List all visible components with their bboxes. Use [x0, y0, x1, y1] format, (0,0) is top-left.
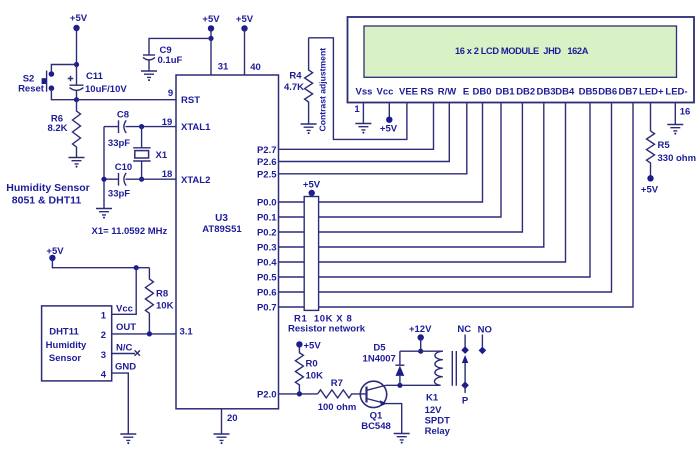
- node reset top junction: [74, 62, 79, 67]
- svg-text:C8: C8: [117, 110, 129, 121]
- wire U3 pin 20 to ground: [221, 409, 223, 434]
- node R0 bottom junction: [297, 391, 302, 396]
- svg-text:DB2: DB2: [516, 87, 535, 98]
- wire pole stub P: [464, 385, 466, 393]
- wire DB6 to P0.6: [279, 103, 612, 292]
- svg-text:16 x 2 LCD MODULE JHD 162A: 16 x 2 LCD MODULE JHD 162A: [455, 46, 589, 56]
- svg-text:N/C: N/C: [116, 343, 133, 354]
- wire DB3 to P0.3: [279, 103, 544, 247]
- svg-text:K1: K1: [426, 393, 439, 404]
- wire Vss pin to ground: [362, 103, 364, 123]
- capacitor C11 10uF/10V: [68, 65, 128, 100]
- svg-text:+5V: +5V: [380, 124, 398, 135]
- svg-text:NO: NO: [478, 325, 492, 336]
- transistor Q1 BC548: [360, 381, 390, 432]
- switch S2 (Reset pushbutton): [18, 71, 54, 95]
- svg-text:9: 9: [168, 88, 173, 99]
- +5V terminal above R1 network: [303, 180, 321, 197]
- wire node to switch S2 top: [51, 65, 76, 75]
- wire VEE pin to contrast pot: [309, 38, 407, 140]
- svg-text:P2.0: P2.0: [257, 389, 277, 400]
- node C9 junction: [208, 36, 213, 41]
- svg-text:31: 31: [218, 62, 229, 73]
- svg-text:RST: RST: [181, 95, 200, 106]
- svg-text:Vss: Vss: [356, 87, 373, 98]
- +5V terminal at LCD Vcc: [380, 117, 398, 135]
- svg-text:33pF: 33pF: [108, 189, 130, 200]
- relay pole arm with arrow: [462, 355, 468, 385]
- svg-text:1: 1: [354, 104, 360, 115]
- ground at LED-: [667, 125, 683, 135]
- +5V terminal below R5: [641, 175, 659, 195]
- wire RS to P2.7: [279, 103, 434, 149]
- svg-text:Reset: Reset: [18, 84, 45, 95]
- svg-text:DB6: DB6: [598, 87, 617, 98]
- svg-text:10K: 10K: [156, 301, 174, 312]
- resistor network R1 10K x 8: [288, 197, 366, 335]
- microcontroller U3 AT89S51 box: [176, 75, 279, 409]
- node +12V relay junction: [418, 349, 423, 354]
- svg-text:3: 3: [101, 350, 106, 361]
- svg-text:R4: R4: [289, 71, 302, 82]
- capacitor C8 33pF: [108, 110, 130, 150]
- N/C no-connect cross: [135, 350, 140, 355]
- wire +5V to Vcc and R8: [52, 258, 149, 268]
- wire DB5 to P0.5: [279, 103, 591, 277]
- wire XTAL1 row: [104, 126, 176, 128]
- ground below DHT11: [120, 434, 136, 444]
- caption Humidity Sensor 8051 & DHT11: [6, 182, 89, 207]
- svg-text:Contrast adjustment: Contrast adjustment: [318, 48, 328, 132]
- svg-text:12V: 12V: [425, 405, 443, 416]
- svg-text:DB1: DB1: [495, 87, 515, 98]
- svg-text:Humidity: Humidity: [46, 340, 87, 351]
- ground below Q1 emitter: [394, 434, 410, 444]
- resistor R5 330 ohm: [647, 131, 697, 178]
- svg-text:BC548: BC548: [361, 421, 391, 432]
- svg-text:40: 40: [250, 62, 261, 73]
- wire DB1 to P0.1: [279, 103, 502, 217]
- ground below C9: [141, 71, 157, 81]
- wire D5 cathode to relay coil top: [400, 350, 443, 352]
- wire Q1 collector to relay coil bottom: [386, 384, 441, 386]
- svg-text:DB0: DB0: [472, 87, 491, 98]
- svg-text:XTAL2: XTAL2: [181, 175, 210, 186]
- svg-text:DB4: DB4: [555, 87, 575, 98]
- wire Vcc pin to +5V: [388, 103, 390, 120]
- wire LED+ pin to R5: [650, 103, 652, 131]
- svg-text:E: E: [463, 87, 469, 98]
- node NC contact: [461, 346, 469, 354]
- resistor R6 8.2K: [47, 100, 80, 157]
- wire XTAL2 row: [104, 178, 176, 180]
- resistor R0 10K: [295, 344, 323, 394]
- node D5 anode junction: [397, 383, 402, 388]
- svg-text:8051 & DHT11: 8051 & DHT11: [12, 195, 82, 207]
- svg-text:+5V: +5V: [46, 246, 64, 257]
- svg-text:+5V: +5V: [70, 13, 88, 24]
- wire DHT11 N/C stub: [112, 353, 135, 355]
- +5V terminal above pin 31: [202, 14, 220, 32]
- svg-text:SPDT: SPDT: [425, 416, 451, 427]
- svg-text:LED-: LED-: [665, 87, 687, 98]
- wire DB2 to P0.2: [279, 103, 523, 232]
- ground below R4: [301, 124, 317, 134]
- +5V terminal above pin 40: [236, 14, 254, 32]
- svg-text:R0: R0: [306, 359, 318, 370]
- DHT11 humidity sensor box: [42, 306, 112, 381]
- +5V terminal above DHT11: [46, 246, 64, 261]
- svg-text:Sensor: Sensor: [49, 353, 82, 364]
- wire Q1 emitter to ground: [386, 404, 402, 433]
- svg-text:+5V: +5V: [236, 14, 254, 25]
- wire NC terminal: [464, 335, 466, 351]
- svg-text:2: 2: [101, 330, 106, 341]
- wire junction down to DHT11 pin 1: [112, 268, 137, 315]
- +12V terminal: [409, 324, 432, 351]
- wire R/W to P2.6: [279, 103, 450, 161]
- svg-text:U3: U3: [215, 213, 228, 224]
- wire switch S2 bottom to RST node: [51, 88, 76, 100]
- svg-text:100 ohm: 100 ohm: [318, 402, 357, 413]
- wire junction to C9: [149, 38, 211, 54]
- capacitor C9 0.1uF: [143, 45, 183, 71]
- svg-text:+5V: +5V: [304, 341, 322, 352]
- svg-text:33pF: 33pF: [108, 138, 130, 149]
- node R8 bottom OUT junction: [147, 331, 152, 336]
- wire crystal left bus: [103, 127, 105, 208]
- svg-text:P0.4: P0.4: [257, 258, 277, 269]
- svg-text:RS: RS: [420, 87, 433, 98]
- svg-text:NC: NC: [457, 324, 471, 335]
- svg-text:P2.5: P2.5: [257, 169, 277, 180]
- svg-text:XTAL1: XTAL1: [181, 122, 211, 133]
- svg-text:330 ohm: 330 ohm: [658, 153, 697, 164]
- wire +5V to U3 pin 31: [210, 28, 212, 75]
- svg-text:P0.3: P0.3: [257, 243, 277, 254]
- svg-text:Resistor network: Resistor network: [288, 324, 366, 335]
- svg-text:16: 16: [680, 107, 691, 118]
- svg-text:8.2K: 8.2K: [47, 123, 67, 134]
- node XTAL2 crystal junction: [139, 177, 144, 182]
- svg-text:R7: R7: [331, 378, 343, 389]
- wire DHT11 GND to ground: [112, 373, 129, 433]
- svg-text:P0.1: P0.1: [257, 213, 277, 224]
- svg-text:Humidity Sensor: Humidity Sensor: [6, 182, 89, 194]
- resistor R8 10K: [145, 268, 173, 334]
- svg-text:P: P: [462, 396, 469, 407]
- svg-text:4: 4: [101, 369, 107, 380]
- wire DHT11 OUT to U3 3.1: [112, 333, 176, 335]
- wire +5V down to reset node: [76, 28, 78, 65]
- svg-text:P0.5: P0.5: [257, 273, 277, 284]
- node RST junction: [74, 97, 79, 102]
- svg-text:R/W: R/W: [438, 87, 457, 98]
- ground below U3 pin 20: [214, 434, 230, 444]
- +5V terminal top left: [70, 13, 88, 31]
- wire DB4 to P0.4: [279, 103, 566, 262]
- crystal X1: [133, 127, 168, 180]
- ground below R6: [69, 158, 85, 168]
- svg-text:Vcc: Vcc: [377, 87, 394, 98]
- svg-text:18: 18: [162, 169, 173, 180]
- svg-text:P0.6: P0.6: [257, 288, 277, 299]
- +5V terminal above R0: [296, 341, 321, 352]
- wire +5V to U3 pin 40: [244, 28, 246, 75]
- svg-text:+12V: +12V: [409, 324, 432, 335]
- svg-text:4.7K: 4.7K: [284, 82, 304, 93]
- svg-text:20: 20: [227, 413, 238, 424]
- svg-text:Vcc: Vcc: [116, 304, 133, 315]
- svg-text:P0.2: P0.2: [257, 228, 277, 239]
- svg-text:DB7: DB7: [618, 87, 637, 98]
- svg-text:Q1: Q1: [370, 411, 383, 422]
- svg-text:P0.0: P0.0: [257, 198, 277, 209]
- svg-text:C11: C11: [86, 71, 104, 82]
- capacitor C10 33pF: [108, 162, 132, 200]
- wire P2.0 to R7: [279, 393, 318, 395]
- wire LED- pin to ground: [674, 103, 676, 124]
- wire E to P2.5: [279, 103, 467, 174]
- wire DB7 to P0.7: [279, 103, 634, 307]
- LCD display area (green): [364, 26, 677, 77]
- svg-text:LED+: LED+: [639, 87, 664, 98]
- svg-text:OUT: OUT: [116, 322, 136, 333]
- node left bus XTAL2 junction: [101, 177, 106, 182]
- svg-text:DB3: DB3: [536, 87, 555, 98]
- ground at Vss: [355, 124, 371, 134]
- svg-text:VEE: VEE: [399, 87, 418, 98]
- svg-text:X1: X1: [156, 150, 168, 161]
- svg-text:DB5: DB5: [579, 87, 599, 98]
- wire NO terminal: [481, 335, 483, 351]
- svg-text:R8: R8: [156, 289, 168, 300]
- svg-text:10uF/10V: 10uF/10V: [85, 84, 127, 95]
- svg-text:P0.7: P0.7: [257, 303, 277, 314]
- svg-text:10K: 10K: [306, 371, 324, 382]
- wire DB0 to P0.0: [279, 103, 483, 202]
- svg-text:P2.6: P2.6: [257, 157, 277, 168]
- svg-text:1: 1: [101, 311, 107, 322]
- LCD module outer box: [348, 17, 695, 103]
- svg-text:+5V: +5V: [303, 180, 321, 191]
- svg-text:1N4007: 1N4007: [363, 354, 396, 365]
- svg-text:D5: D5: [373, 343, 386, 354]
- svg-text:X1= 11.0592 MHz: X1= 11.0592 MHz: [92, 226, 168, 237]
- node XTAL1 crystal junction: [139, 124, 144, 129]
- diode D5 1N4007: [363, 343, 405, 386]
- svg-text:Relay: Relay: [425, 426, 451, 437]
- ground below crystal bus: [96, 209, 112, 219]
- svg-text:P2.7: P2.7: [257, 145, 277, 156]
- node pole contact: [461, 382, 469, 390]
- node DHT11 Vcc junction: [134, 265, 139, 270]
- resistor R4 4.7K contrast pot: [284, 38, 313, 124]
- svg-text:AT89S51: AT89S51: [202, 224, 242, 235]
- svg-text:R5: R5: [658, 140, 671, 151]
- svg-text:3.1: 3.1: [180, 327, 194, 338]
- relay K1 coil: [425, 351, 457, 437]
- resistor R7 100 ohm: [318, 378, 367, 413]
- svg-text:0.1uF: 0.1uF: [158, 55, 183, 66]
- wire RST node to U3 pin 9: [77, 99, 177, 101]
- svg-text:+5V: +5V: [641, 185, 659, 196]
- node NO contact: [479, 347, 487, 355]
- svg-text:C10: C10: [115, 162, 132, 173]
- svg-text:DHT11: DHT11: [49, 327, 79, 338]
- svg-text:GND: GND: [115, 362, 136, 373]
- svg-text:+5V: +5V: [202, 14, 220, 25]
